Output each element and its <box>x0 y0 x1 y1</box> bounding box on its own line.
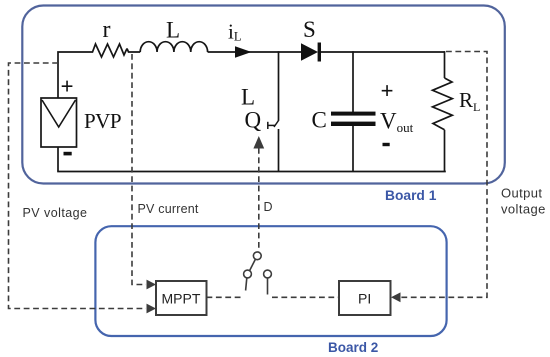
wire PVP bottom <box>57 147 59 172</box>
svg-text:PI: PI <box>358 291 371 307</box>
transistor Q switch blade and gate <box>274 121 279 128</box>
dashed MPPT to switch <box>207 296 242 298</box>
capacitor C plates <box>331 112 376 116</box>
svg-text:Output: Output <box>501 186 542 201</box>
dashed D gate line <box>258 148 260 252</box>
PI block <box>339 281 391 315</box>
svg-text:S: S <box>303 17 316 42</box>
inductor L <box>140 42 207 52</box>
label - (Vout) <box>383 143 390 146</box>
load RL wire lower <box>444 130 446 172</box>
load RL branch wire upper <box>444 51 446 78</box>
selector switch circles <box>253 252 261 260</box>
dashed output voltage line <box>401 52 488 298</box>
capacitor C branch lower wire <box>352 126 354 172</box>
svg-text:r: r <box>103 17 111 43</box>
svg-text:MPPT: MPPT <box>162 291 201 307</box>
wire top-left vertical <box>58 52 89 98</box>
label - (PVP) <box>64 152 72 156</box>
capacitor C branch upper wire <box>352 51 354 112</box>
svg-text:iL: iL <box>228 20 241 44</box>
selector switch blade <box>250 259 256 270</box>
svg-text:L: L <box>166 18 180 43</box>
wire diode to RL corner <box>321 51 445 53</box>
svg-text:L: L <box>241 85 255 110</box>
svg-text:PV voltage: PV voltage <box>23 206 88 220</box>
dashed PV voltage line <box>9 63 147 309</box>
MPPT block <box>156 281 207 315</box>
bottom rail wire <box>57 171 446 173</box>
selector switch right stem <box>267 278 269 295</box>
transistor Q branch upper wire <box>278 51 280 121</box>
wire r to L <box>127 49 140 53</box>
svg-text:D: D <box>264 200 273 214</box>
dashed switch to PI <box>272 296 339 298</box>
svg-text:voltage: voltage <box>501 202 546 217</box>
board 2 (outline) <box>95 226 446 336</box>
transistor Q branch lower wire <box>278 129 280 172</box>
svg-text:PV current: PV current <box>138 202 199 216</box>
svg-text:+: + <box>381 79 394 104</box>
svg-text:+: + <box>61 74 74 99</box>
resistor r <box>89 44 127 57</box>
svg-text:Board 2: Board 2 <box>328 340 378 355</box>
dashed PV current line <box>132 54 146 285</box>
svg-text:Vout: Vout <box>380 109 414 136</box>
svg-text:PVP: PVP <box>84 109 121 133</box>
board 1 (outline) <box>22 6 505 184</box>
diode S <box>301 43 318 60</box>
PVP panel <box>41 98 77 147</box>
load RL zigzag <box>433 78 453 130</box>
wire L to diode <box>208 51 301 53</box>
selector switch left stem <box>246 278 247 291</box>
svg-text:C: C <box>312 108 327 133</box>
svg-text:Board 1: Board 1 <box>385 188 437 203</box>
svg-text:RL: RL <box>459 88 480 114</box>
svg-text:Q: Q <box>245 108 262 133</box>
iL current arrow <box>235 46 252 57</box>
